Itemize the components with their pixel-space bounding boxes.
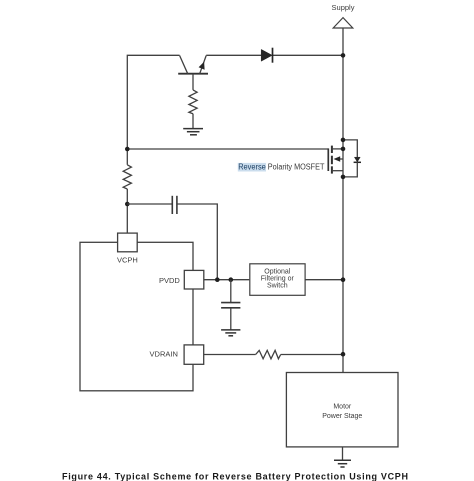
pin PVDD box [184,270,204,289]
wire C2 branch down [230,280,232,303]
node source-diode bottom [341,175,346,180]
pin VCPH label [117,255,138,264]
svg-text:Power Stage: Power Stage [322,413,362,420]
wire R3 to rail [281,354,343,356]
wire R1 to ground [192,114,194,129]
svg-text:PVDD: PVDD [159,276,180,285]
label Reverse Polarity MOSFET highlight [238,163,266,172]
diode D1 [261,48,272,63]
svg-text:Reverse: Reverse [238,163,266,172]
node drain-diode top [341,138,346,143]
svg-text:Polarity MOSFET: Polarity MOSFET [268,163,325,172]
node optional-rail [341,277,346,282]
MOSFET Q2 source connection [332,170,343,172]
motor power stage box [286,373,398,447]
transistor Q1 [178,56,208,90]
wire diode to supply rail [273,54,343,56]
pin VDRAIN label [150,350,178,359]
net Supply label [332,3,355,12]
body diode D2 branch wire [343,140,357,157]
wire C2 to ground [230,308,232,330]
wire optional box to rail [305,279,343,281]
svg-text:Motor: Motor [333,404,352,411]
pin VDRAIN box [184,345,204,364]
node gate-drain line [341,147,346,152]
svg-text:Filtering or: Filtering or [261,275,295,282]
motor power stage label [322,404,362,420]
capacitor C2 [221,303,240,308]
svg-text:Switch: Switch [267,282,288,289]
ground (transistor base) [183,129,203,135]
MOSFET Q2 body arrow [334,156,344,162]
node C1 branch [215,277,220,282]
pin PVDD label [159,276,180,285]
svg-text:Figure 44. Typical Scheme for: Figure 44. Typical Scheme for Reverse Ba… [62,472,408,481]
ground (motor) [334,460,351,467]
wire gate line [127,148,328,150]
resistor R1 (base pull-down) [189,90,197,114]
node diode-rail junction [341,53,346,58]
svg-text:VCPH: VCPH [117,255,138,264]
supply symbol (triangle) [333,18,353,28]
optional filtering box label [261,268,295,289]
MOSFET Q2 drain connection [332,148,343,150]
svg-text:Optional: Optional [264,268,291,275]
ground (C2) [221,330,240,336]
pin VCPH box [118,233,138,252]
wire C1 to PVDD net [177,204,217,280]
node C2 branch [229,277,234,282]
wire supply vertical main rail [342,28,344,373]
capacitor C1 (series) [172,196,177,214]
node R3-rail [341,352,346,357]
resistor R3 [256,350,281,358]
wire motor box to ground [342,447,344,460]
wire VDRAIN to R3 [204,354,256,356]
node left rail / cap wire [125,202,130,207]
IC body U1 [80,242,193,390]
label Reverse Polarity MOSFET [238,163,324,172]
resistor R2 (left rail) [123,165,131,189]
optional filtering box [250,264,305,296]
MOSFET Q2 gate bar [327,148,329,171]
wire emitter to diode [206,54,261,56]
node left rail / gate wire [125,147,130,152]
svg-text:VDRAIN: VDRAIN [150,350,178,359]
MOSFET Q2 channel segments [331,146,333,174]
wire PVDD to optional box [204,279,250,281]
wire node to capacitor C1 [127,203,172,205]
caption Figure 44 [62,472,408,481]
wire collector to left rail top [127,55,179,165]
body diode D2 return wire [343,162,357,177]
body diode D2 [354,157,361,162]
wire R2 to VCPH [126,189,128,233]
svg-text:Supply: Supply [332,3,355,12]
